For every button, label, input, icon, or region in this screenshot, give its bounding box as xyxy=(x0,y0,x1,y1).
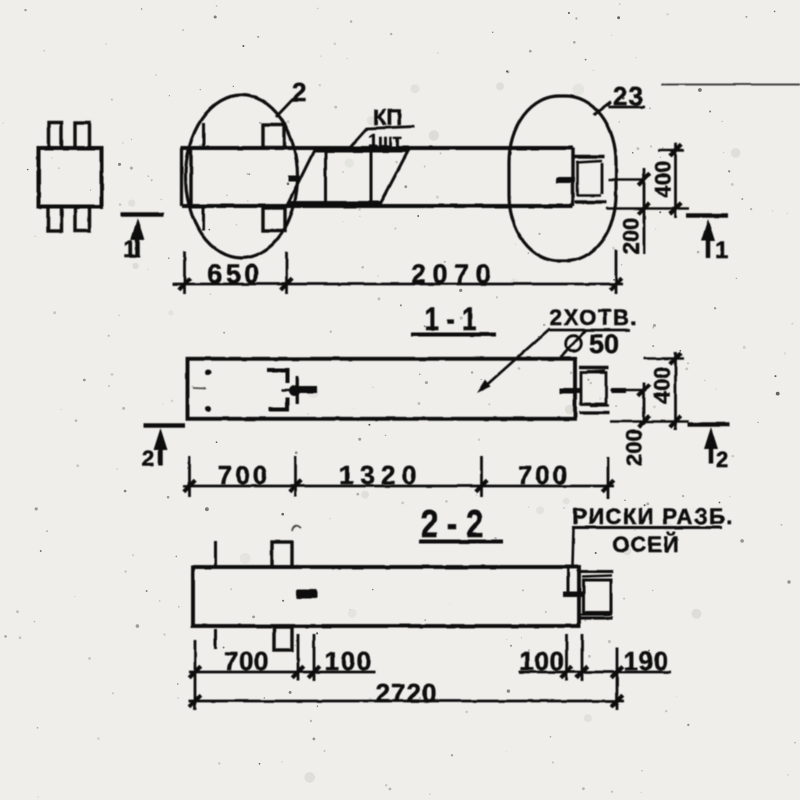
label 2XOTV xyxy=(550,305,639,330)
frame line top right xyxy=(661,84,800,86)
detail ellipse 23 xyxy=(509,96,616,261)
dimension 100/190 (2-2 right) xyxy=(519,634,671,710)
plan view top-right stub xyxy=(75,123,90,149)
dimension 2720 xyxy=(189,695,624,707)
label 2 leader xyxy=(276,98,294,117)
bracket pin (top view) xyxy=(556,177,575,183)
KP insert parallelogram xyxy=(289,151,409,203)
2-2 bottom stub block xyxy=(274,627,292,650)
svg-text:2ХОТВ.: 2ХОТВ. xyxy=(550,305,639,330)
beam axis stub lines (top view left) xyxy=(202,123,205,231)
section cut marker 1 (right of main view) xyxy=(686,216,728,265)
svg-text:650: 650 xyxy=(207,259,263,289)
pin extension line xyxy=(608,178,646,181)
label diameter 50 xyxy=(561,329,619,359)
section cut marker 2 (right of 1-1) xyxy=(688,425,730,473)
svg-text:РИСКИ РАЗБ.: РИСКИ РАЗБ. xyxy=(572,504,733,529)
2-2 end bracket xyxy=(563,567,613,618)
section 2-2 outline xyxy=(193,567,579,626)
dimension 650 / 2070 xyxy=(172,250,623,294)
svg-text:2070: 2070 xyxy=(411,259,497,289)
weld mark dash (top view) xyxy=(289,176,300,182)
svg-text:КП: КП xyxy=(373,105,402,130)
svg-text:2: 2 xyxy=(292,77,306,107)
label KP leader xyxy=(350,127,415,148)
dimension 200 (1-1) xyxy=(610,382,650,466)
rebar dot upper xyxy=(205,370,211,376)
main view beam outline xyxy=(181,148,574,206)
1-1 end bracket xyxy=(559,368,626,413)
svg-text:1 - 1: 1 - 1 xyxy=(425,301,477,337)
svg-text:700: 700 xyxy=(224,646,269,676)
lifting loop symbol (1-1) xyxy=(267,371,317,410)
svg-text:50: 50 xyxy=(589,329,619,359)
svg-text:700: 700 xyxy=(218,460,270,490)
small curl mark xyxy=(292,526,301,531)
svg-text:1320: 1320 xyxy=(339,460,423,490)
svg-text:ОСЕЙ: ОСЕЙ xyxy=(612,532,680,557)
plan view bottom-left stub xyxy=(49,207,62,232)
section 1-1 outline xyxy=(188,359,576,419)
detail ellipse 2 xyxy=(186,95,298,258)
label 23 leader xyxy=(594,102,611,115)
section title 2-2 xyxy=(419,503,503,546)
plan view top-left stub xyxy=(49,123,62,149)
svg-text:100: 100 xyxy=(325,646,373,676)
section title 1-1 xyxy=(411,301,496,337)
label riski razb xyxy=(572,504,734,529)
2-2 weld dash xyxy=(296,589,317,599)
2-2 axis stub lines xyxy=(214,541,217,649)
svg-text:400: 400 xyxy=(651,161,676,198)
svg-text:400: 400 xyxy=(650,367,675,404)
svg-text:1: 1 xyxy=(123,236,136,263)
section cut marker 2 (left of 1-1) xyxy=(142,426,185,472)
label 2 holes leader xyxy=(481,329,550,391)
2-2 top stub block xyxy=(272,542,292,567)
dimension 200 (top view) xyxy=(619,168,650,255)
beam end bracket (top view right) xyxy=(574,157,607,202)
bottom console block xyxy=(263,208,285,231)
dimension 400 (1-1) xyxy=(610,352,689,430)
dimension 700/100 (2-2 left) xyxy=(189,634,375,710)
rebar dot lower xyxy=(205,406,211,412)
dimension 400 (top view) xyxy=(606,143,689,218)
svg-text:190: 190 xyxy=(624,646,669,676)
section cut marker 1 (left of main view) xyxy=(121,215,164,264)
dimension 700/1320/700 (1-1) xyxy=(183,456,614,499)
leader arrowhead xyxy=(477,380,491,394)
svg-text:2720: 2720 xyxy=(376,678,438,708)
svg-text:700: 700 xyxy=(518,460,570,490)
column plan view square xyxy=(39,148,102,207)
svg-text:200: 200 xyxy=(622,429,647,466)
svg-text:2: 2 xyxy=(716,447,728,472)
svg-text:100: 100 xyxy=(520,646,565,676)
top console block xyxy=(263,125,285,148)
plan view bottom-right stub xyxy=(75,207,90,232)
label riski leader xyxy=(573,528,574,566)
svg-text:200: 200 xyxy=(619,218,644,255)
svg-text:1: 1 xyxy=(715,237,728,264)
svg-text:1шт: 1шт xyxy=(368,131,402,151)
label 23 xyxy=(608,81,645,111)
svg-text:2: 2 xyxy=(142,446,154,471)
small mark in 1-1 xyxy=(193,387,206,390)
